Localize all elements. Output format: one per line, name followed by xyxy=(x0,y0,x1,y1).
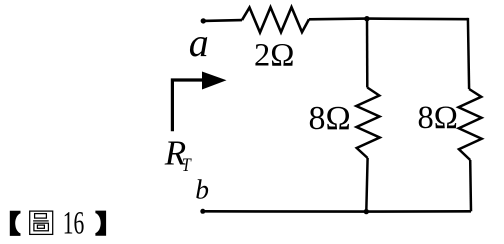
node: top junction dot xyxy=(364,16,369,21)
wire: right branch lower segment xyxy=(469,160,472,211)
svg-text:a: a xyxy=(189,20,209,65)
svg-text:b: b xyxy=(195,174,209,205)
wire: bottom rail from node b to bottom-right corner xyxy=(203,210,471,213)
resistor 2Ω (horizontal zigzag) xyxy=(242,7,309,32)
node: bottom junction dot xyxy=(364,209,369,214)
svg-text:8Ω: 8Ω xyxy=(309,100,351,137)
svg-text:16: 16 xyxy=(63,206,85,242)
wire: middle branch upper segment xyxy=(366,18,369,88)
wire: resistor 2Ω to top junction xyxy=(309,17,367,20)
resistor 8Ω middle (vertical zigzag) xyxy=(356,88,379,159)
wire: node a to resistor 2Ω xyxy=(203,19,242,22)
caption bracket 【 (left lenticular) xyxy=(10,211,29,236)
node b (terminal dot) xyxy=(200,209,205,214)
node a (terminal dot) xyxy=(201,18,206,23)
wire: top junction to top-right corner xyxy=(367,17,468,20)
svg-text:8Ω: 8Ω xyxy=(418,100,458,136)
wire: middle branch lower segment xyxy=(366,158,367,212)
label RT xyxy=(164,133,192,176)
caption bracket 】 (right lenticular) xyxy=(88,211,107,236)
resistor 8Ω right (vertical zigzag) xyxy=(459,89,482,160)
RT arrow (bent arrow) xyxy=(172,72,226,132)
svg-text:2Ω: 2Ω xyxy=(254,37,294,73)
wire: right branch upper segment xyxy=(468,18,469,89)
caption glyph 圖 (drawn) xyxy=(30,211,53,234)
svg-text:T: T xyxy=(182,155,192,176)
